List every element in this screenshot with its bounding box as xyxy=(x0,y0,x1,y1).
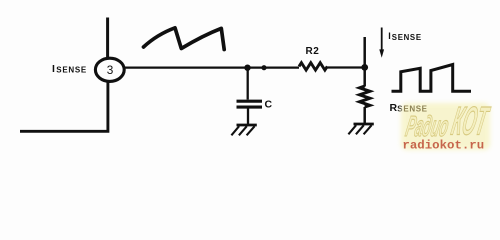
wire node to RSENSE xyxy=(363,68,366,87)
junction node dot (capacitor tap) xyxy=(244,65,250,71)
capacitor C plates xyxy=(237,100,263,103)
wire vertical stub above node xyxy=(363,37,366,68)
arrow ISENSE (current direction) xyxy=(381,28,383,51)
pin circle 3 xyxy=(95,58,124,81)
wire capacitor to ground xyxy=(247,109,249,125)
svg-text:I: I xyxy=(388,31,391,41)
svg-text:Радио: Радио xyxy=(403,109,452,142)
watermark background xyxy=(401,103,490,150)
svg-text:R2: R2 xyxy=(306,46,320,57)
watermark text Радио КОТ xyxy=(403,99,493,144)
wire top stub above pin 3 xyxy=(106,18,109,59)
resistor RSENSE xyxy=(360,86,370,107)
svg-text:radiokot.ru: radiokot.ru xyxy=(402,139,484,153)
wire main horizontal bus xyxy=(125,66,299,68)
wire R2 to node xyxy=(327,66,365,68)
ground (under capacitor) xyxy=(231,125,256,135)
wire capacitor drop xyxy=(247,68,249,100)
ground (under RSENSE) xyxy=(348,124,373,134)
sawtooth waveform xyxy=(144,28,225,50)
resistor R2 xyxy=(299,63,327,70)
wire RSENSE to ground xyxy=(363,107,366,124)
svg-text:C: C xyxy=(265,98,273,110)
node junction dot xyxy=(361,64,368,71)
svg-text:I: I xyxy=(52,63,55,75)
svg-text:SENSE: SENSE xyxy=(392,33,422,42)
svg-text:3: 3 xyxy=(107,63,114,77)
svg-text:SENSE: SENSE xyxy=(56,65,87,74)
svg-text:R: R xyxy=(390,102,398,114)
junction node dot xyxy=(261,65,266,70)
square wave waveform xyxy=(393,65,470,92)
wire bottom stub below pin 3 and bottom-left horizontal xyxy=(20,82,108,132)
